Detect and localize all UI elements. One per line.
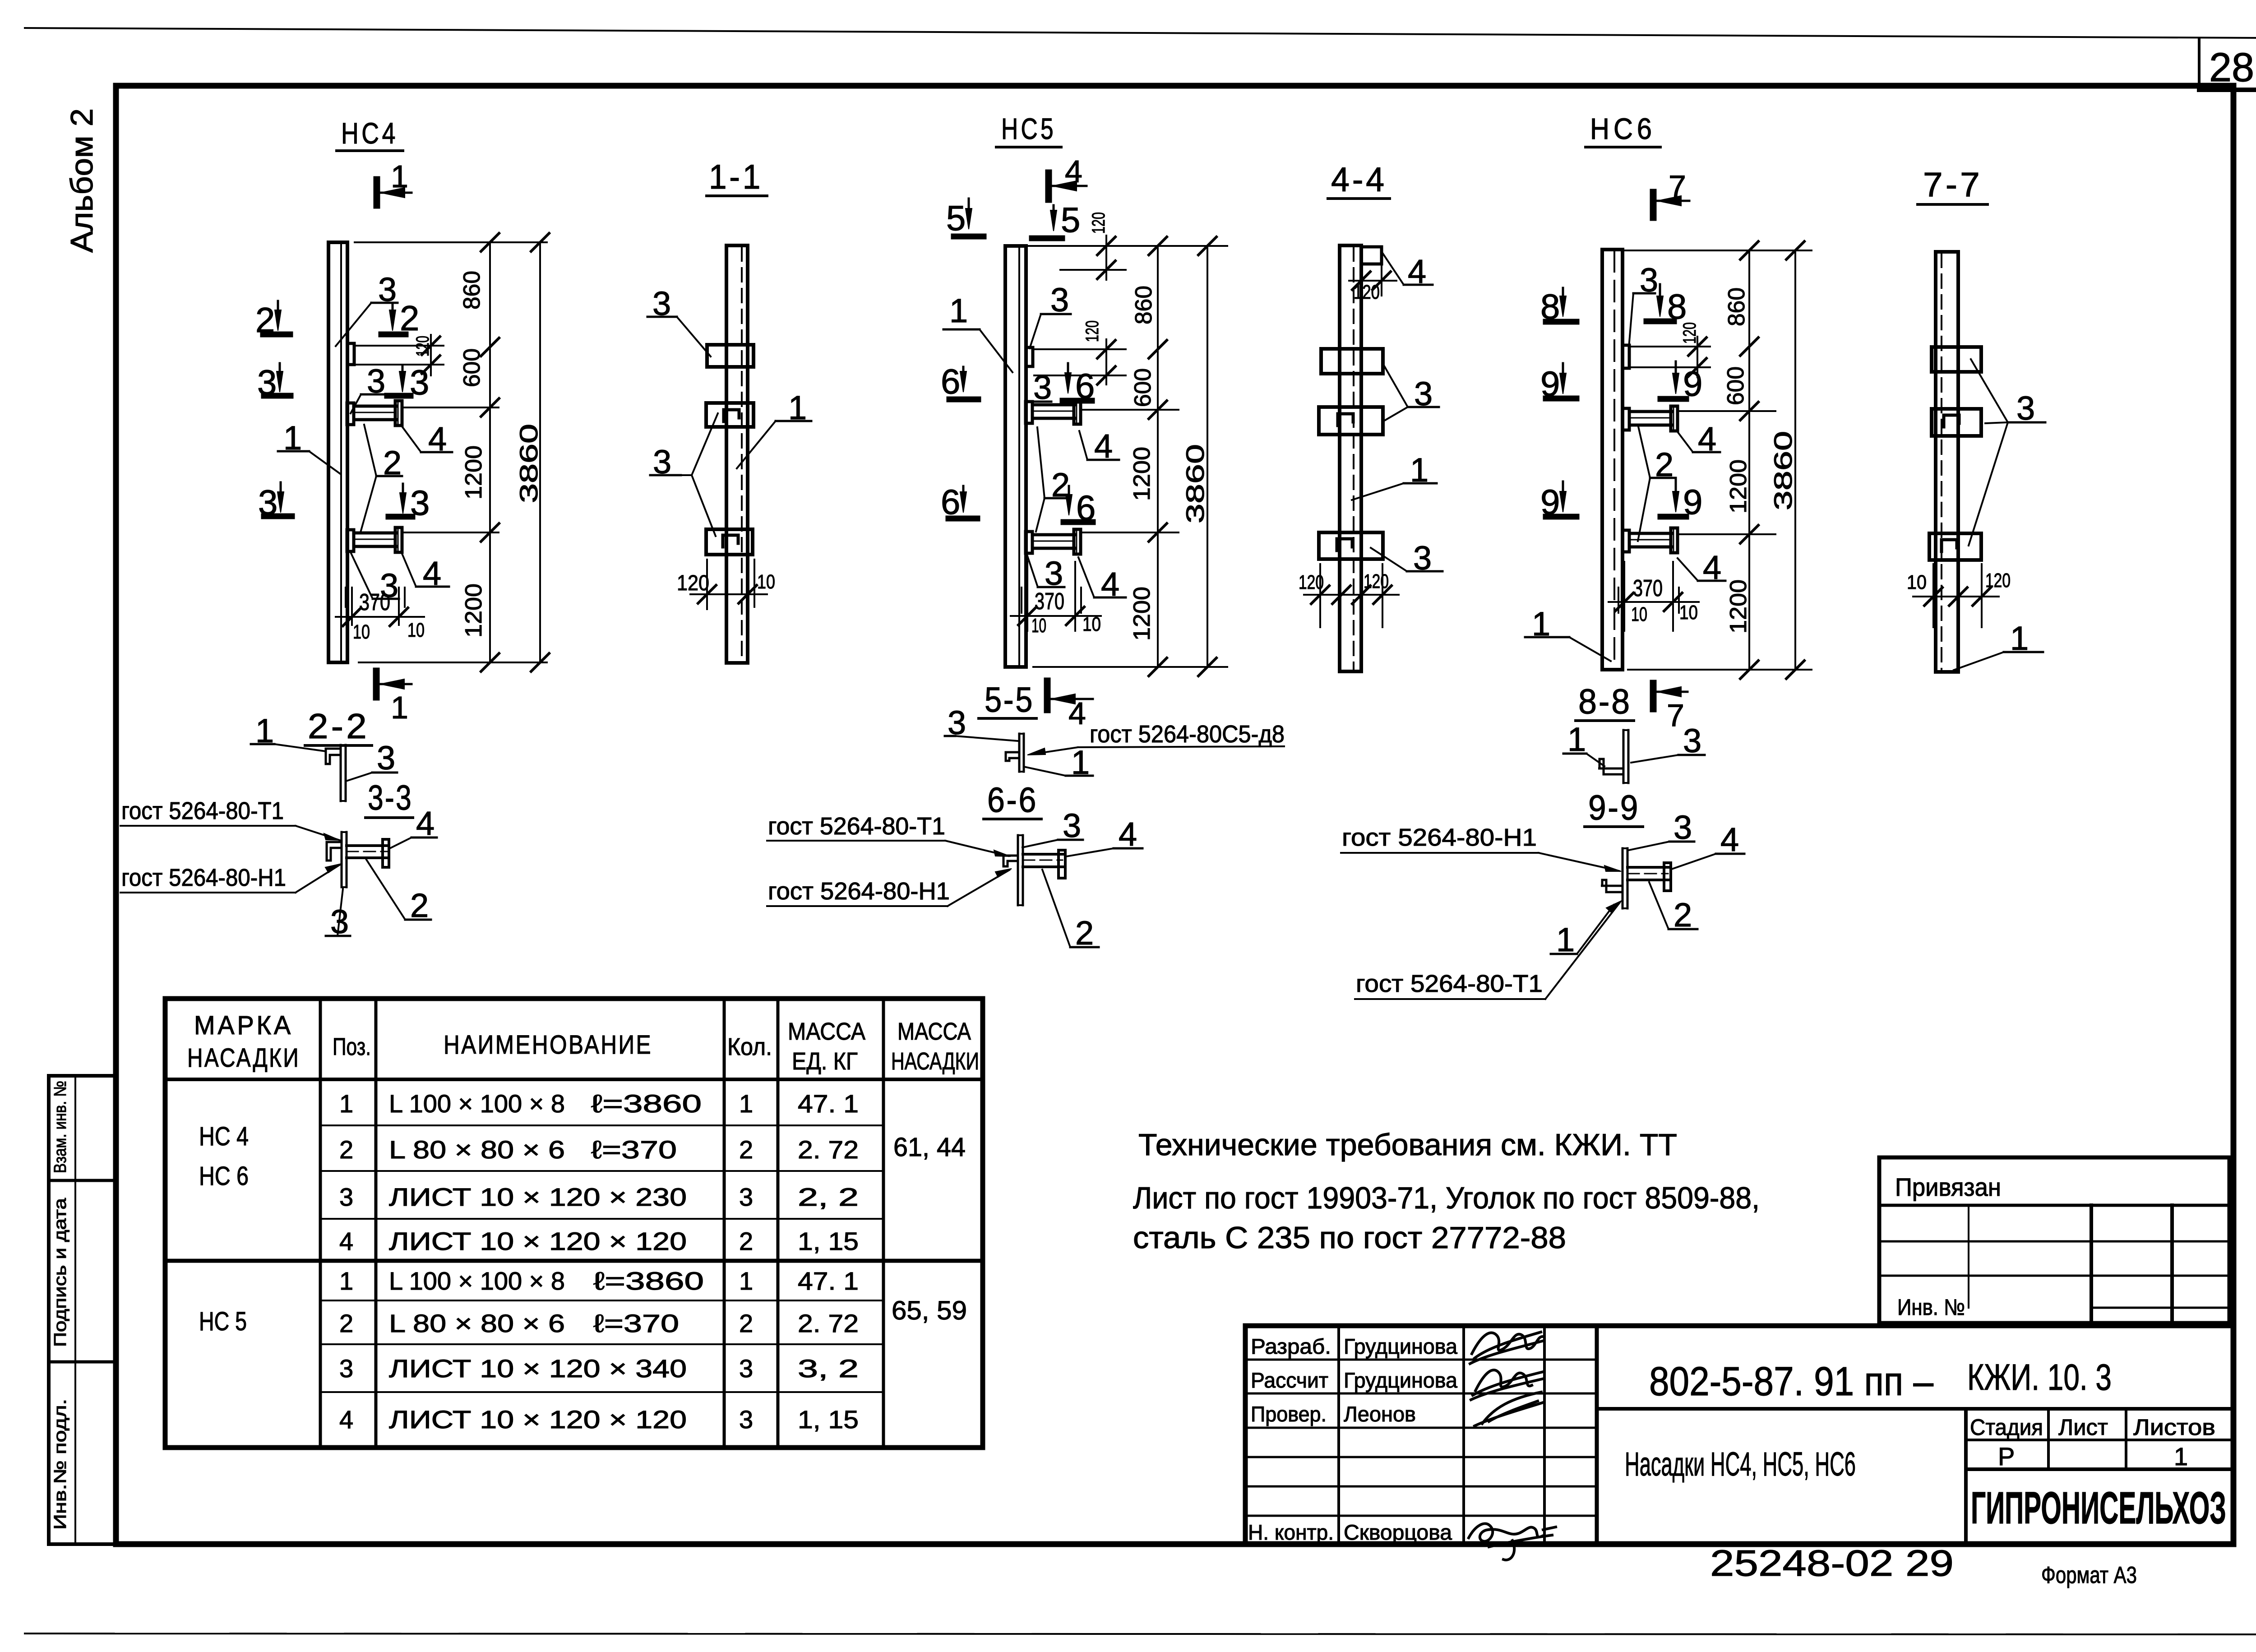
svg-text:гост 5264-80-Т1: гост 5264-80-Т1	[768, 813, 945, 840]
chain dim 860/600/1200/1200 (НС6)	[1748, 250, 1750, 670]
svg-text:4: 4	[339, 1227, 353, 1255]
angle+plate section (2-2)	[340, 745, 342, 801]
svg-text:120: 120	[1680, 322, 1700, 344]
svg-text:Лист по гост 19903-71, Угол: Лист по гост 19903-71, Уголок по гост 85…	[1133, 1181, 1760, 1215]
svg-text:L 80 × 80 × 6: L 80 × 80 × 6	[389, 1309, 565, 1337]
svg-text:ЕД. КГ: ЕД. КГ	[792, 1048, 858, 1075]
console second (НС5)	[1026, 532, 1032, 553]
svg-text:120: 120	[1354, 281, 1380, 303]
svg-text:600: 600	[459, 348, 485, 387]
angle bar item 1 (НС6)	[1602, 250, 1623, 670]
svg-text:НАСАДКИ: НАСАДКИ	[891, 1048, 979, 1075]
svg-text:МАРКА: МАРКА	[194, 1011, 293, 1040]
svg-text:гост 5264-80С5-д8: гост 5264-80С5-д8	[1090, 721, 1285, 748]
svg-text:НС 5: НС 5	[199, 1307, 247, 1336]
svg-text:НАИМЕНОВАНИЕ: НАИМЕНОВАНИЕ	[444, 1030, 652, 1060]
svg-text:ЛИСТ 10 × 120 × 120: ЛИСТ 10 × 120 × 120	[389, 1227, 687, 1255]
dims 120/120 (4-4)	[1319, 564, 1321, 627]
svg-text:65, 59: 65, 59	[892, 1296, 967, 1325]
svg-text:Инв.№ подл.: Инв.№ подл.	[51, 1399, 70, 1530]
svg-text:8-8: 8-8	[1578, 681, 1632, 721]
overall dim 3860 (НС4)	[539, 242, 541, 662]
svg-text:НС 4: НС 4	[199, 1122, 249, 1151]
svg-text:1200: 1200	[461, 445, 487, 500]
signatures	[1469, 1332, 1556, 1560]
svg-text:10: 10	[1631, 603, 1647, 625]
svg-text:КЖИ. 10. 3: КЖИ. 10. 3	[1967, 1357, 2112, 1398]
svg-text:1, 15: 1, 15	[798, 1227, 859, 1255]
page number box 28	[2198, 39, 2201, 90]
svg-text:3: 3	[339, 1354, 353, 1383]
svg-text:ℓ=3860: ℓ=3860	[593, 1267, 704, 1295]
svg-text:2: 2	[739, 1309, 753, 1337]
svg-text:гост 5264-80-Т1: гост 5264-80-Т1	[1356, 970, 1543, 997]
section marker 4 (bottom)	[1044, 681, 1051, 710]
sheet outer thin border	[25, 28, 2256, 38]
svg-text:ЛИСТ 10 × 120 × 340: ЛИСТ 10 × 120 × 340	[389, 1354, 687, 1383]
svg-text:3, 2: 3, 2	[798, 1354, 859, 1383]
svg-text:7: 7	[1667, 698, 1684, 733]
svg-text:6-6: 6-6	[987, 780, 1038, 819]
svg-text:МАССА: МАССА	[788, 1018, 865, 1045]
svg-text:1: 1	[739, 1267, 753, 1295]
overall dim 3860 (НС5)	[1207, 246, 1208, 667]
svg-text:Р: Р	[1998, 1442, 2015, 1471]
svg-text:7: 7	[1669, 169, 1686, 204]
plate3+angle2+plate4 section (6-6)	[1017, 835, 1019, 905]
dim 120 top plate (4-4)	[1360, 266, 1362, 296]
svg-text:860: 860	[1724, 287, 1750, 326]
svg-text:3: 3	[739, 1405, 753, 1434]
svg-text:47. 1: 47. 1	[798, 1267, 859, 1295]
svg-text:3860: 3860	[1769, 431, 1797, 510]
console item 2+4 first (НС4)	[347, 403, 354, 425]
svg-text:Альбом 2: Альбом 2	[64, 108, 99, 253]
angle+plate section (8-8)	[1623, 730, 1625, 783]
svg-text:ЛИСТ 10 × 120 × 120: ЛИСТ 10 × 120 × 120	[389, 1405, 687, 1434]
svg-text:120: 120	[1082, 320, 1102, 342]
svg-text:4: 4	[1068, 696, 1086, 731]
svg-text:Лист: Лист	[2058, 1415, 2108, 1440]
dim 120 plate (НС6)	[1630, 346, 1710, 347]
plate 3 top (4-4)	[1321, 349, 1383, 374]
svg-text:370: 370	[1035, 588, 1064, 615]
svg-text:10: 10	[1907, 571, 1927, 593]
svg-text:1200: 1200	[1725, 579, 1752, 634]
svg-text:3: 3	[339, 1183, 353, 1211]
svg-text:10: 10	[1679, 602, 1698, 624]
dim 370+10/10 (НС5)	[1026, 562, 1028, 631]
svg-text:2-2: 2-2	[308, 706, 370, 746]
svg-text:НС5: НС5	[1001, 112, 1056, 145]
plate 3 bottom (7-7)	[1929, 533, 1981, 560]
svg-text:3: 3	[377, 739, 395, 777]
bar item1 (7-7)	[1936, 252, 1958, 672]
svg-text:2. 72: 2. 72	[798, 1309, 859, 1337]
svg-text:Грудцинова: Грудцинова	[1344, 1368, 1458, 1392]
svg-text:5-5: 5-5	[985, 680, 1034, 719]
console second (НС6)	[1623, 530, 1629, 552]
svg-text:10: 10	[1031, 615, 1046, 637]
svg-text:2, 2: 2, 2	[798, 1183, 859, 1211]
svg-text:Грудцинова: Грудцинова	[1344, 1334, 1458, 1358]
plate3+angle2+plate4 section (3-3)	[341, 832, 343, 887]
svg-text:1200: 1200	[461, 583, 487, 638]
svg-text:10: 10	[757, 571, 775, 593]
svg-text:3860: 3860	[1181, 444, 1209, 523]
plate 3 top (1-1)	[707, 345, 754, 367]
svg-text:47. 1: 47. 1	[798, 1089, 859, 1118]
svg-text:370: 370	[359, 589, 390, 615]
plate item 3 upper (НС6)	[1623, 345, 1629, 368]
svg-text:1: 1	[339, 1267, 353, 1295]
svg-text:гост 5264-80-Н1: гост 5264-80-Н1	[1342, 824, 1537, 851]
svg-text:2: 2	[339, 1309, 353, 1337]
console first (НС6)	[1623, 408, 1629, 430]
svg-text:ℓ=3860: ℓ=3860	[591, 1089, 702, 1118]
plate 3 mid (4-4)	[1319, 407, 1383, 435]
svg-text:2: 2	[739, 1227, 753, 1255]
dims 120/10 (1-1)	[706, 560, 708, 609]
svg-text:3-3: 3-3	[368, 777, 413, 817]
svg-text:НС4: НС4	[341, 116, 398, 150]
svg-text:Разраб.: Разраб.	[1251, 1334, 1331, 1358]
svg-text:1-1: 1-1	[709, 158, 763, 196]
svg-text:802-5-87. 91 пп –: 802-5-87. 91 пп –	[1649, 1359, 1934, 1404]
svg-text:гост 5264-80-Н1: гост 5264-80-Н1	[121, 864, 286, 891]
svg-text:сталь С 235 по гост 2: сталь С 235 по гост 27772-88	[1133, 1221, 1566, 1255]
plate 3 mid (7-7)	[1932, 409, 1981, 436]
svg-text:3: 3	[739, 1354, 753, 1383]
svg-text:7-7: 7-7	[1923, 166, 1983, 204]
svg-text:120: 120	[677, 571, 709, 595]
svg-text:10: 10	[407, 619, 425, 641]
svg-text:1: 1	[2174, 1442, 2188, 1471]
section marker 1 (bottom)	[373, 671, 380, 697]
bar item1 in section 1-1	[726, 245, 748, 663]
svg-text:Формат А3: Формат А3	[2041, 1562, 2137, 1588]
svg-text:120: 120	[1364, 570, 1389, 592]
svg-text:600: 600	[1130, 368, 1156, 407]
svg-text:Поз.: Поз.	[333, 1033, 371, 1060]
section marker 7 (top)	[1650, 192, 1657, 217]
svg-text:Привязан: Привязан	[1895, 1173, 2001, 1201]
svg-text:Скворцова: Скворцова	[1344, 1520, 1452, 1544]
svg-text:Листов: Листов	[2133, 1415, 2215, 1440]
section marker 1 (top)	[374, 180, 380, 205]
dim 370 + 10/10 bottom (НС4)	[351, 588, 353, 625]
svg-text:Кол.: Кол.	[727, 1033, 772, 1060]
dim 120 plate (НС5)	[1034, 348, 1126, 350]
svg-text:4: 4	[339, 1405, 353, 1434]
plate item 3 upper (НС5)	[1026, 347, 1033, 366]
svg-text:5: 5	[1061, 200, 1080, 240]
plate 3 bottom (1-1)	[706, 529, 753, 555]
svg-text:Провер.: Провер.	[1251, 1402, 1327, 1426]
svg-text:L 100 × 100 × 8: L 100 × 100 × 8	[389, 1267, 565, 1295]
plate 3 bottom (4-4)	[1319, 532, 1383, 559]
svg-text:120: 120	[1985, 569, 2011, 592]
svg-text:600: 600	[1723, 366, 1749, 405]
svg-text:Рассчит: Рассчит	[1251, 1368, 1328, 1392]
svg-text:10: 10	[353, 621, 370, 643]
svg-text:Леонов: Леонов	[1344, 1402, 1416, 1426]
dim 370+10/10 (НС6)	[1623, 562, 1625, 631]
sidebar frame	[49, 1076, 116, 1544]
svg-text:860: 860	[1131, 286, 1157, 324]
angle bar item 1 (НС5)	[1005, 246, 1026, 667]
svg-text:4: 4	[1065, 154, 1082, 189]
svg-text:860: 860	[459, 271, 485, 310]
svg-text:1200: 1200	[1129, 447, 1155, 501]
svg-text:120: 120	[1089, 212, 1109, 234]
svg-text:L 100 × 100 × 8: L 100 × 100 × 8	[389, 1089, 565, 1118]
privyazan box	[1879, 1157, 2229, 1323]
svg-text:1: 1	[391, 159, 408, 194]
svg-text:Инв. №: Инв. №	[1897, 1295, 1965, 1320]
plate 4 top (4-4)	[1361, 247, 1382, 264]
svg-text:Н. контр.: Н. контр.	[1248, 1520, 1334, 1544]
title block frame	[1245, 1326, 2233, 1544]
svg-text:гост 5264-80-Н1: гост 5264-80-Н1	[768, 878, 950, 905]
chain dimension extension lines НС4	[355, 241, 547, 243]
svg-text:1200: 1200	[1725, 459, 1752, 514]
svg-text:28: 28	[2209, 45, 2254, 90]
chain dimension line 860/600/1200/1200 (НС4)	[489, 242, 491, 662]
svg-text:61, 44: 61, 44	[893, 1133, 966, 1162]
svg-text:Стадия: Стадия	[1970, 1415, 2043, 1440]
svg-text:Технические требования см.: Технические требования см. КЖИ. ТТ	[1138, 1128, 1677, 1162]
svg-text:ℓ=370: ℓ=370	[591, 1135, 677, 1164]
svg-text:1: 1	[339, 1089, 353, 1118]
svg-text:1: 1	[739, 1089, 753, 1118]
plate 3 top (7-7)	[1932, 347, 1981, 372]
svg-text:1, 15: 1, 15	[798, 1405, 859, 1434]
svg-text:3860: 3860	[514, 424, 543, 503]
svg-text:НАСАДКИ: НАСАДКИ	[187, 1043, 300, 1073]
parts table frame	[165, 999, 983, 1448]
svg-text:2. 72: 2. 72	[798, 1135, 859, 1164]
svg-text:1: 1	[391, 690, 408, 725]
plate 3 mid (1-1)	[706, 403, 754, 427]
svg-text:ГИПРОНИСЕЛЬХОЗ: ГИПРОНИСЕЛЬХОЗ	[1971, 1483, 2226, 1533]
svg-text:370: 370	[1633, 575, 1663, 602]
svg-text:4-4: 4-4	[1331, 161, 1387, 199]
svg-text:5: 5	[946, 198, 966, 238]
angle+plate section (5-5)	[1018, 734, 1021, 772]
svg-text:2: 2	[339, 1135, 353, 1164]
svg-text:гост 5264-80-Т1: гост 5264-80-Т1	[121, 797, 284, 824]
svg-text:НС 6: НС 6	[199, 1161, 249, 1191]
svg-text:120: 120	[1299, 571, 1324, 593]
svg-text:1: 1	[949, 292, 968, 329]
overall dim 3860 (shared НС6/7-7)	[1794, 250, 1796, 670]
svg-text:3: 3	[739, 1183, 753, 1211]
plate item 3 upper (НС4)	[347, 343, 354, 365]
svg-text:120: 120	[413, 336, 433, 356]
bar item1 (4-4)	[1340, 245, 1361, 671]
console item 2+4 second (НС4)	[347, 530, 354, 551]
svg-text:6: 6	[941, 361, 960, 401]
svg-text:Подпись и дата: Подпись и дата	[51, 1198, 70, 1347]
section marker 7 (bottom)	[1650, 683, 1657, 709]
chain extension lines (НС5)	[1029, 245, 1227, 247]
dim 120 at upper plate	[355, 345, 444, 347]
svg-text:НС6: НС6	[1590, 112, 1656, 145]
svg-text:9-9: 9-9	[1588, 787, 1640, 827]
svg-text:25248-02 29: 25248-02 29	[1710, 1543, 1954, 1584]
chain extension lines (НС6)	[1624, 250, 1812, 251]
svg-text:1200: 1200	[1129, 587, 1155, 641]
dim 120 top (НС5)	[1060, 269, 1126, 271]
svg-text:10: 10	[1082, 613, 1101, 635]
section marker 4 (top)	[1045, 173, 1052, 199]
svg-text:Взам. инв. №: Взам. инв. №	[51, 1081, 70, 1173]
angle bar item 1 (НС4)	[328, 242, 347, 662]
svg-text:L 80 × 80 × 6: L 80 × 80 × 6	[389, 1135, 565, 1164]
svg-text:ЛИСТ 10 × 120 × 230: ЛИСТ 10 × 120 × 230	[389, 1183, 687, 1211]
svg-text:2: 2	[739, 1135, 753, 1164]
svg-text:ℓ=370: ℓ=370	[593, 1309, 679, 1337]
svg-text:МАССА: МАССА	[897, 1018, 971, 1045]
plate3+angle2+plate4 section (9-9)	[1622, 848, 1624, 908]
dims 10/120 (7-7)	[1932, 564, 1934, 627]
svg-text:Насадки НС4, НС5, НС6: Насадки НС4, НС5, НС6	[1625, 1445, 1856, 1483]
console first (НС5)	[1026, 402, 1032, 423]
chain dim 860/600/1200/1200 (НС5)	[1157, 246, 1159, 667]
